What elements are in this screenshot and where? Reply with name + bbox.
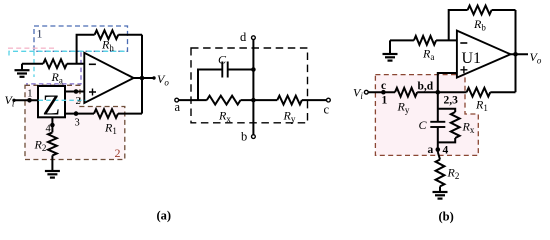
svg-text:Z: Z [43,90,61,122]
op-amp minus sign [89,63,96,65]
wire Z pin2 to non-inverting input [65,91,84,93]
svg-text:4: 4 [443,145,449,157]
junction output node [140,76,145,81]
resistor R2 (b) [436,160,445,187]
resistor Rh [95,30,119,39]
wire R2 to ground [51,155,53,171]
node purple partition box around Ra [26,52,81,84]
svg-text:(a): (a) [157,209,172,223]
capacitor C plates [222,62,227,78]
op-amp U1 triangle [457,31,511,78]
node cyan partition line through Z [39,99,87,101]
svg-text:c: c [381,80,386,92]
junction node c (b) [381,90,386,95]
terminal b open circle [252,135,256,139]
svg-text:U1: U1 [462,50,482,67]
node box 2 (brown dashed, impedance network) [25,85,125,159]
wire output feedback vertical [141,35,143,114]
wire Z pin3 to R1 [65,113,94,115]
ground (b) [389,40,391,53]
svg-text:1: 1 [37,27,43,41]
wire R1 to output vertical [118,113,142,115]
wire R1 to output (b) [490,91,515,93]
resistor Ry (b) [395,88,417,97]
junction Vi node [27,98,32,103]
svg-text:c: c [324,103,330,117]
wire output vertical (b) [515,10,517,92]
junction output node (b) [513,52,518,57]
capacitor C plates (b) [430,122,445,127]
wire Rh feedback top [77,35,142,64]
svg-text:2,3: 2,3 [444,95,459,107]
terminal Vi dot [12,99,15,102]
svg-text:b: b [241,130,247,144]
resistor Rb [468,6,492,15]
junction node b,d [436,90,441,95]
ground bottom (b) [433,192,448,199]
wire Ry to node bd [417,91,466,93]
svg-text:a: a [175,100,181,114]
wire output Vo (b) [511,53,529,55]
terminal Vi open circle (b) [364,90,368,94]
wire ground to Ra [22,63,43,65]
terminal c open circle [327,98,331,102]
wire C bottom to node a4 [437,127,439,152]
svg-text:d: d [240,30,247,44]
svg-text:C: C [419,118,428,132]
svg-text:1: 1 [27,89,32,100]
wire d to b vertical [252,40,254,135]
svg-text:a: a [428,144,434,156]
node network pink highlight fill (b) [375,75,478,156]
svg-text:b,d: b,d [418,81,434,93]
resistor Ra (b) [414,36,436,45]
resistor Ry [277,96,302,105]
node network-2 pink highlight fill (a) [25,85,125,159]
wire a to Rx [179,99,207,101]
junction node a,4 [436,147,441,152]
wire Ra to inverting input [67,63,84,65]
node box 1 (blue dashed, feedback network) [34,26,128,51]
resistor Rx [207,96,241,105]
wire R2 to ground (b) [439,186,441,192]
resistor R2 (a) [48,132,57,155]
resistor Ra [43,59,67,68]
svg-text:2: 2 [115,146,121,160]
wire capacitor branch [198,70,253,101]
svg-text:C: C [218,53,227,67]
wire Rx branch top [438,109,455,112]
wire output Vo [134,77,154,79]
ground bottom (a) [45,171,60,178]
ground left (a) [21,64,23,70]
wire Z pin4 down [51,117,53,132]
wire Ry to c [302,99,327,101]
wire non-inverting riser (b) [438,73,457,92]
node cyan partition line left [33,51,35,77]
junction pin4 [50,123,55,128]
wire Ra to inverting input (b) [436,39,457,41]
terminal a open circle [175,98,179,102]
svg-text:2: 2 [76,96,81,107]
wire Vi input [14,99,38,101]
junction pin3 [74,111,79,116]
op-amp plus sign [89,89,96,96]
wire Rx branch bottom [438,138,455,142]
svg-text:1: 1 [382,95,388,107]
junction pin2 [74,89,79,94]
terminal Vo end dot [152,76,155,79]
wire jog to R2 (b) [438,152,440,160]
resistor R1 (a) [94,109,118,118]
svg-text:4: 4 [46,124,52,135]
svg-text:3: 3 [75,118,80,129]
wire Rb feedback top (b) [449,10,516,40]
junction C branch with vertical [251,67,256,72]
op-amp U1 plus sign [460,66,467,73]
node RC network red dashed box (b) [375,75,478,156]
resistor Rx (b) [451,112,460,138]
wire Vi to Ry [368,91,395,93]
node cyan partition line top [9,51,128,55]
node pink partition line [8,47,56,49]
terminal d open circle [252,36,256,40]
wire Rx to center node [241,99,278,101]
wire ground to Ra (b) [390,39,414,41]
op-amp A1 triangle [84,53,133,103]
svg-text:(b): (b) [439,210,454,224]
junction center node [251,98,256,103]
wire bd node down to split [437,92,439,122]
impedance block Z [38,86,65,117]
node two-port network dashed box [191,48,308,123]
resistor R1 (b) [467,88,491,97]
op-amp U1 minus sign [460,42,467,44]
